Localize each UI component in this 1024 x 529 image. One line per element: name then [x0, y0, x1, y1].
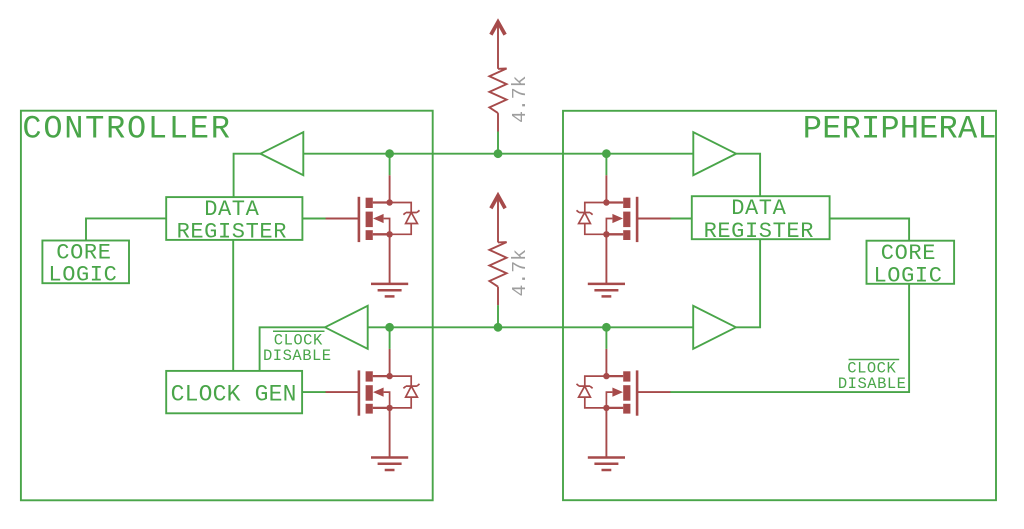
svg-text:DISABLE: DISABLE	[838, 375, 907, 393]
resistor R2 4.7k pull-up on SCL	[489, 196, 531, 328]
buffer U1 sda-in (controller)	[261, 132, 304, 175]
ground below Q1	[371, 284, 408, 297]
transistor Q4 scl driver (peripheral)	[577, 327, 671, 457]
wire buffer out to data register bottom (peripheral)	[736, 239, 760, 327]
resistor R1 4.7k pull-up on SDA	[489, 22, 531, 154]
ground below Q2	[371, 458, 408, 471]
wire SCL bus	[368, 326, 693, 328]
wire core logic to data register (controller)	[86, 218, 166, 240]
core logic box (controller)	[42, 241, 129, 284]
svg-text:CLOCK GEN: CLOCK GEN	[171, 381, 297, 407]
ground below Q4	[588, 458, 625, 471]
buffer U2 scl-in (controller)	[325, 306, 368, 349]
svg-text:DATA: DATA	[204, 197, 259, 222]
core logic box (peripheral)	[867, 241, 955, 284]
peripheral box	[563, 111, 996, 500]
clock gen box (controller)	[166, 371, 302, 413]
svg-text:DATA: DATA	[731, 196, 786, 221]
wire data register (peripheral) gate wire	[670, 218, 692, 220]
wire buffer out to clock gen top	[260, 327, 325, 371]
wire data register to core logic (peripheral)	[830, 219, 910, 241]
node junction SDA/R1	[494, 149, 503, 158]
svg-text:DISABLE: DISABLE	[263, 347, 332, 365]
wire data register bottom to clock gen top	[232, 240, 234, 371]
svg-text:CORE: CORE	[881, 241, 936, 266]
wire buffer out to data register top (peripheral)	[736, 154, 760, 197]
wire core logic bottom to scl mosfet gate (peripheral)	[670, 284, 909, 392]
node junction SDA/Q1	[385, 149, 394, 158]
node junction SCL/R2	[494, 323, 503, 332]
buffer U4 scl-in (peripheral)	[693, 306, 736, 349]
transistor Q3 sda driver (peripheral)	[577, 154, 671, 284]
svg-text:PERIPHERAL: PERIPHERAL	[803, 110, 997, 147]
data register box (peripheral)	[692, 196, 830, 239]
wire clock gen out to mosfet gate (green part)	[302, 391, 326, 393]
wire buffer out to data register top	[234, 154, 261, 197]
clock disable label (peripheral)	[838, 360, 907, 394]
svg-text:LOGIC: LOGIC	[873, 263, 942, 288]
transistor Q2 scl driver (controller)	[326, 327, 420, 457]
svg-text:REGISTER: REGISTER	[177, 220, 287, 245]
transistor Q1 sda driver (controller)	[326, 154, 420, 284]
wire data register out to mosfet gate (green part)	[302, 218, 326, 220]
clock disable label (controller)	[263, 331, 332, 365]
svg-text:CONTROLLER: CONTROLLER	[22, 110, 231, 147]
node junction SCL/Q2	[385, 323, 394, 332]
data register box (controller)	[166, 197, 302, 240]
node junction SCL/Q4	[602, 323, 611, 332]
node junction SDA/Q3	[602, 149, 611, 158]
controller box	[21, 111, 433, 501]
svg-text:REGISTER: REGISTER	[704, 219, 814, 244]
wire SDA bus	[303, 153, 693, 155]
ground below Q3	[588, 284, 625, 297]
svg-text:LOGIC: LOGIC	[48, 263, 117, 288]
buffer U3 sda-in (peripheral)	[693, 132, 736, 175]
